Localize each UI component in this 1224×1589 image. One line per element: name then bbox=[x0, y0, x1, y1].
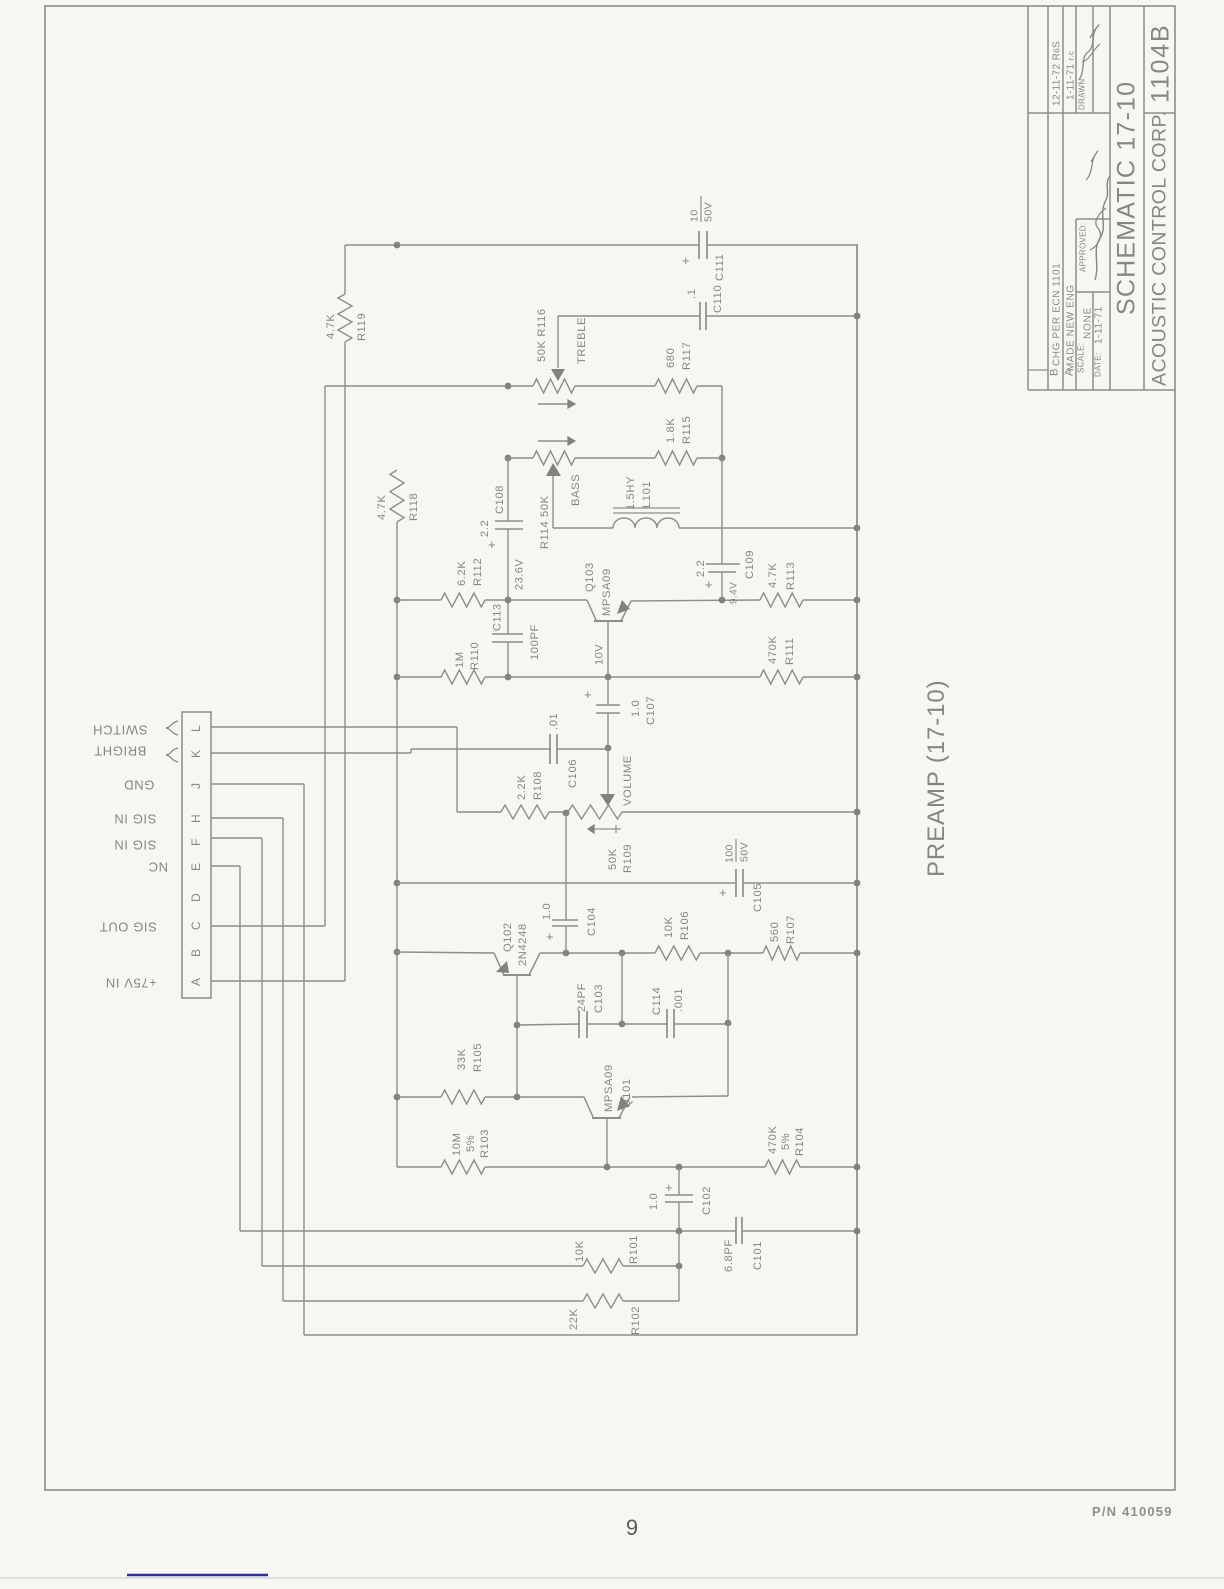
svg-text:+: + bbox=[682, 253, 690, 268]
svg-text:50V: 50V bbox=[703, 202, 715, 222]
junction C102 bottom bbox=[676, 1228, 683, 1235]
resistor R102 22K bbox=[568, 1294, 679, 1335]
svg-text:DRAWN: DRAWN bbox=[1078, 79, 1087, 110]
svg-text:C106: C106 bbox=[567, 759, 579, 788]
transistor Q102 2N4248 (PNP) bbox=[494, 922, 540, 1097]
scan edge line bbox=[0, 1577, 1224, 1579]
wire tone junction down through C108/C113 bbox=[507, 458, 509, 677]
wire pin F (SIG IN) down to R101 line bbox=[211, 838, 262, 1266]
blue scan mark line bbox=[127, 1574, 268, 1577]
svg-text:470K: 470K bbox=[767, 635, 779, 664]
svg-text:+: + bbox=[719, 885, 727, 900]
node tone input junction bbox=[505, 383, 512, 390]
capacitor C105 100/50V (+) bbox=[719, 839, 764, 912]
svg-text:H: H bbox=[189, 814, 203, 823]
title block SCALE NONE cell bbox=[1077, 307, 1094, 373]
svg-text:C111: C111 bbox=[714, 254, 726, 281]
svg-text:R110: R110 bbox=[469, 642, 481, 670]
wire R105 base feedback line bbox=[397, 1096, 584, 1098]
svg-text:MADE NEW ENG: MADE NEW ENG bbox=[1065, 284, 1076, 371]
svg-text:1.5HY: 1.5HY bbox=[625, 476, 637, 510]
junction C110 to ground bus bbox=[854, 313, 861, 320]
svg-text:J: J bbox=[189, 783, 203, 789]
svg-text:SIG IN: SIG IN bbox=[114, 812, 157, 827]
svg-text:4.7K: 4.7K bbox=[325, 314, 337, 339]
junction R108/R109/C104 bbox=[563, 810, 570, 817]
svg-text:10K: 10K bbox=[574, 1240, 586, 1262]
junction Q102 base riser at R105 line bbox=[514, 1094, 521, 1101]
junction supply node at R110 bbox=[394, 674, 401, 681]
junction volume high end to ground bus bbox=[854, 809, 861, 816]
svg-text:4.7K: 4.7K bbox=[376, 495, 388, 520]
svg-text:SIG IN: SIG IN bbox=[114, 838, 157, 853]
svg-text:TREBLE: TREBLE bbox=[576, 317, 588, 364]
svg-text:GND: GND bbox=[124, 778, 155, 793]
resistor R117 680 bbox=[655, 342, 722, 458]
resistor R113 4.7K bbox=[760, 562, 857, 607]
wire pin J (GND) down to ground return bbox=[211, 784, 304, 1335]
capacitor C106 .01 bbox=[548, 713, 608, 788]
svg-text:R119: R119 bbox=[356, 313, 368, 341]
wire base node to Q103 bbox=[508, 599, 587, 601]
svg-text:SWITCH: SWITCH bbox=[93, 723, 148, 738]
svg-text:C108: C108 bbox=[494, 485, 506, 514]
resistor R103 10M 5% bbox=[441, 1129, 491, 1174]
wire supply node to Q102 emitter bbox=[397, 952, 494, 953]
wire R112 supply to Q103 base node bbox=[397, 599, 441, 601]
junction Q102 base at riser bbox=[514, 1022, 521, 1029]
svg-text:R113: R113 bbox=[785, 562, 797, 590]
svg-text:2.2: 2.2 bbox=[479, 520, 491, 537]
svg-text:1-11-71 r.c: 1-11-71 r.c bbox=[1065, 51, 1076, 100]
capacitor C104 1.0 (+) bbox=[541, 813, 598, 953]
resistor R105 33K bbox=[441, 1043, 485, 1104]
svg-text:9.4V: 9.4V bbox=[728, 582, 739, 604]
connector J101 body bbox=[182, 712, 211, 998]
svg-text:BASS: BASS bbox=[570, 474, 582, 506]
svg-text:50K: 50K bbox=[607, 848, 619, 870]
transistor Q103 MPSA09 bbox=[584, 562, 631, 677]
capacitor C108 2.2 (+) bbox=[479, 485, 523, 552]
wire R103 collector feedback line bbox=[397, 1166, 765, 1168]
title block DRAWN cell with signature bbox=[1078, 25, 1100, 110]
svg-text:DATE:: DATE: bbox=[1094, 353, 1103, 377]
svg-text:+75V IN: +75V IN bbox=[105, 976, 157, 991]
svg-text:470K: 470K bbox=[767, 1125, 779, 1154]
junction supply node at R105 bbox=[394, 1094, 401, 1101]
resistor R106 10K bbox=[655, 911, 763, 960]
wire riser to C103/C114 line bbox=[621, 953, 623, 1024]
svg-text:R111: R111 bbox=[784, 638, 796, 665]
resistor R111 470K bbox=[760, 635, 857, 684]
capacitor C113 100PF bbox=[492, 604, 541, 660]
svg-text:R102: R102 bbox=[630, 1306, 642, 1335]
wire sig-out line to tone pots bbox=[325, 385, 508, 387]
wire Q101 emitter riser bbox=[632, 953, 728, 1097]
svg-text:9: 9 bbox=[626, 1515, 638, 1540]
capacitor C110 .1 bbox=[686, 285, 724, 330]
svg-text:E: E bbox=[189, 863, 203, 871]
svg-text:33K: 33K bbox=[456, 1048, 468, 1070]
potentiometer R114 50K BASS bbox=[508, 437, 655, 549]
svg-text:C109: C109 bbox=[744, 550, 756, 579]
svg-text:1.0: 1.0 bbox=[648, 1193, 660, 1210]
svg-text:100: 100 bbox=[724, 844, 736, 863]
capacitor C102 1.0 (+) bbox=[648, 1167, 713, 1231]
transistor Q101 MPSA09 bbox=[584, 1064, 633, 1167]
svg-text:R117: R117 bbox=[681, 342, 693, 370]
junction Q103 base node / C108-C113 bbox=[505, 597, 512, 604]
svg-text:C104: C104 bbox=[586, 907, 598, 936]
svg-text:1M: 1M bbox=[454, 651, 466, 668]
junction C101 to ground bus bbox=[854, 1228, 861, 1235]
junction R107 to ground bus bbox=[854, 950, 861, 957]
svg-text:C: C bbox=[189, 921, 203, 930]
wire pin E (NC) down to C101/C102 line bbox=[211, 866, 240, 1231]
wire R101 input line (pin F) bbox=[262, 1265, 583, 1267]
svg-text:680: 680 bbox=[665, 348, 677, 368]
svg-text:5%: 5% bbox=[465, 1135, 477, 1152]
svg-text:100PF: 100PF bbox=[529, 624, 541, 660]
capacitor C103 24PF bbox=[576, 983, 622, 1038]
svg-text:1104B: 1104B bbox=[1147, 24, 1175, 103]
wire pin K to C106 bbox=[211, 749, 550, 753]
svg-text:560: 560 bbox=[769, 922, 781, 942]
svg-text:Q103: Q103 bbox=[584, 562, 596, 592]
svg-text:CHG PER ECN 1101: CHG PER ECN 1101 bbox=[1051, 263, 1062, 366]
junction C114 line at riser bbox=[619, 1021, 626, 1028]
junction C114 right at emitter riser bbox=[725, 1020, 732, 1027]
svg-text:2N4248: 2N4248 bbox=[517, 923, 529, 966]
svg-text:1.0: 1.0 bbox=[541, 903, 553, 920]
svg-text:Q102: Q102 bbox=[502, 922, 514, 952]
svg-text:C103: C103 bbox=[593, 984, 605, 1013]
svg-text:C113: C113 bbox=[492, 604, 504, 631]
svg-text:6.8PF: 6.8PF bbox=[723, 1239, 735, 1272]
resistor R110 1M bbox=[441, 642, 485, 684]
svg-text:24PF: 24PF bbox=[576, 983, 588, 1012]
wire pin A (+75V IN) up to R119 bbox=[211, 342, 345, 981]
svg-text:.1: .1 bbox=[686, 288, 698, 299]
svg-text:50K R116: 50K R116 bbox=[536, 308, 548, 362]
junction R113 to ground bus bbox=[854, 597, 861, 604]
svg-text:R108: R108 bbox=[532, 771, 544, 800]
svg-text:SCALE:: SCALE: bbox=[1077, 343, 1086, 373]
svg-text:Q101: Q101 bbox=[621, 1078, 633, 1108]
junction volume wiper / C106 / C107 bbox=[605, 745, 612, 752]
junction C104 bottom bbox=[563, 950, 570, 957]
svg-text:R115: R115 bbox=[681, 416, 693, 444]
resistor R115 1.8K bbox=[655, 416, 722, 465]
svg-text:10V: 10V bbox=[594, 644, 606, 665]
svg-text:R106: R106 bbox=[679, 911, 691, 940]
svg-text:10K: 10K bbox=[663, 916, 675, 938]
ground bus (right vertical rail) bbox=[856, 245, 858, 1335]
junction C102 top bbox=[676, 1164, 683, 1171]
svg-text:6.2K: 6.2K bbox=[456, 561, 468, 586]
title block DATE cell bbox=[1093, 306, 1104, 377]
svg-text:MPSA09: MPSA09 bbox=[603, 1064, 615, 1112]
potentiometer R109 50K VOLUME bbox=[457, 748, 857, 873]
wire treble wiper to C110 rail bbox=[558, 316, 857, 368]
svg-text:+: + bbox=[488, 537, 496, 552]
wire C101 input line (pin E) bbox=[240, 1230, 857, 1232]
title block grid bbox=[1028, 6, 1175, 390]
wire +supply rail (top, from R119) bbox=[345, 245, 858, 294]
svg-text:+: + bbox=[584, 687, 592, 702]
svg-text:B: B bbox=[189, 949, 203, 957]
svg-text:C114: C114 bbox=[651, 987, 663, 1015]
svg-text:C101: C101 bbox=[752, 1241, 764, 1270]
svg-text:R107: R107 bbox=[785, 915, 797, 944]
svg-text:R101: R101 bbox=[628, 1235, 640, 1264]
resistor R112 6.2K bbox=[441, 558, 508, 607]
junction treble/bass left ends bbox=[505, 455, 512, 462]
svg-text:5%: 5% bbox=[780, 1133, 792, 1150]
svg-text:.01: .01 bbox=[548, 713, 560, 730]
svg-text:F: F bbox=[189, 839, 203, 846]
svg-text:APPROVED:: APPROVED: bbox=[1079, 223, 1088, 272]
svg-text:+: + bbox=[705, 577, 713, 592]
svg-text:C102: C102 bbox=[701, 1186, 713, 1215]
wire supply node to C105 rail bbox=[397, 882, 857, 884]
inductor L101 1.5HY bbox=[553, 476, 857, 528]
junction supply node at C105 rail bbox=[394, 880, 401, 887]
connector label BRIGHT SWITCH with braces bbox=[93, 721, 178, 762]
svg-text:R104: R104 bbox=[794, 1127, 806, 1156]
capacitor C101 6.8PF bbox=[723, 1217, 764, 1272]
svg-text:L: L bbox=[189, 725, 203, 732]
svg-text:MPSA09: MPSA09 bbox=[601, 568, 613, 616]
svg-text:B: B bbox=[1049, 368, 1061, 376]
svg-text:A: A bbox=[189, 978, 203, 986]
capacitor C109 2.2 (+) with 9.4V label bbox=[695, 458, 756, 604]
resistor R101 10K bbox=[574, 1235, 679, 1273]
resistor R119 4.7K bbox=[325, 294, 368, 342]
wire pin C (SIG OUT) up to tone line bbox=[211, 386, 325, 926]
wire pin L to bright-switch side (R108) bbox=[211, 727, 457, 812]
svg-text:1.0: 1.0 bbox=[630, 700, 642, 717]
svg-text:R118: R118 bbox=[408, 493, 420, 521]
svg-text:R105: R105 bbox=[472, 1043, 484, 1072]
wire R101 node risers bbox=[678, 1231, 680, 1301]
wire R110 line (base bias) bbox=[397, 676, 760, 678]
capacitor C107 1.0 (+) bbox=[584, 677, 657, 748]
svg-text:SCHEMATIC 17-10: SCHEMATIC 17-10 bbox=[1113, 81, 1141, 315]
svg-text:R103: R103 bbox=[479, 1129, 491, 1158]
wire pin H (SIG IN) down to R102 line bbox=[211, 818, 283, 1301]
wire Q103 emitter to R113 bbox=[631, 600, 760, 601]
ground return wire (bottom) to pin J bbox=[304, 1334, 857, 1336]
title block revision row B text bbox=[1049, 41, 1063, 376]
svg-text:4.7K: 4.7K bbox=[767, 563, 779, 588]
svg-text:SIG OUT: SIG OUT bbox=[99, 920, 157, 935]
junction R101/R102 node bbox=[676, 1263, 683, 1270]
svg-text:NONE: NONE bbox=[1082, 307, 1093, 339]
svg-text:10: 10 bbox=[689, 209, 701, 222]
resistor R107 560 bbox=[763, 915, 857, 960]
svg-text:R109: R109 bbox=[622, 844, 634, 873]
junction C109 at emitter line bbox=[719, 597, 726, 604]
svg-text:VOLUME: VOLUME bbox=[622, 755, 634, 806]
svg-text:BRIGHT: BRIGHT bbox=[94, 744, 147, 759]
junction supply node at Q102 emitter wire bbox=[394, 949, 401, 956]
junction R106/R107/C114 node bbox=[725, 950, 732, 957]
wire Q102 base line to C103 bbox=[517, 1024, 579, 1025]
junction R104 to ground bus bbox=[854, 1164, 861, 1171]
svg-text:50V: 50V bbox=[739, 842, 751, 862]
title block APPROVED cell with signature bbox=[1079, 151, 1110, 280]
junction C103/C114 riser at collector line bbox=[619, 950, 626, 957]
wire Q102 collector line bbox=[540, 952, 655, 954]
svg-text:1-11-71: 1-11-71 bbox=[1093, 306, 1104, 344]
connector pin letters A-L bbox=[189, 725, 203, 986]
svg-text:C110: C110 bbox=[712, 285, 724, 313]
title block revision row A text bbox=[1064, 51, 1077, 376]
junction R111 to ground bus bbox=[854, 674, 861, 681]
svg-text:.001: .001 bbox=[673, 988, 685, 1012]
svg-text:ACOUSTIC CONTROL CORP.: ACOUSTIC CONTROL CORP. bbox=[1149, 111, 1171, 386]
junction supply node at R112 bbox=[394, 597, 401, 604]
svg-text:PREAMP (17-10): PREAMP (17-10) bbox=[923, 679, 950, 877]
capacitor C114 .001 bbox=[622, 987, 728, 1038]
svg-text:23.6V: 23.6V bbox=[514, 559, 526, 590]
junction C105 to ground bus bbox=[854, 880, 861, 887]
svg-text:D: D bbox=[189, 893, 203, 902]
svg-text:L101: L101 bbox=[641, 481, 653, 508]
potentiometer R116 50K TREBLE bbox=[508, 308, 655, 408]
svg-text:+: + bbox=[546, 929, 554, 944]
resistor R104 470K 5% bbox=[765, 1125, 857, 1174]
svg-text:12-11-72 R6S: 12-11-72 R6S bbox=[1051, 41, 1062, 106]
svg-text:+: + bbox=[665, 1180, 673, 1195]
junction L101 to ground bus bbox=[854, 525, 861, 532]
svg-text:K: K bbox=[189, 750, 203, 758]
junction R118 top on supply rail bbox=[394, 242, 401, 249]
svg-text:R114 50K: R114 50K bbox=[539, 495, 551, 549]
resistor R118 4.7K bbox=[376, 470, 420, 1167]
svg-text:C105: C105 bbox=[752, 883, 764, 912]
junction Q101 collector bbox=[604, 1164, 611, 1171]
svg-text:NC: NC bbox=[148, 860, 168, 875]
capacitor C111 10/50V bbox=[682, 196, 726, 281]
svg-text:22K: 22K bbox=[568, 1308, 580, 1330]
svg-text:C107: C107 bbox=[645, 696, 657, 725]
svg-text:P/N 410059: P/N 410059 bbox=[1092, 1504, 1173, 1519]
svg-text:2.2: 2.2 bbox=[695, 560, 707, 577]
junction C113 bottom at R110 line bbox=[505, 674, 512, 681]
junction R115/R117 right ends bbox=[719, 455, 726, 462]
svg-text:R112: R112 bbox=[472, 558, 484, 586]
svg-text:10M: 10M bbox=[451, 1132, 463, 1156]
svg-text:2.2K: 2.2K bbox=[516, 775, 528, 800]
junction Q103 collector node bbox=[605, 674, 612, 681]
wire R102 input line (pin H) bbox=[283, 1300, 583, 1302]
svg-text:1.8K: 1.8K bbox=[665, 418, 677, 443]
